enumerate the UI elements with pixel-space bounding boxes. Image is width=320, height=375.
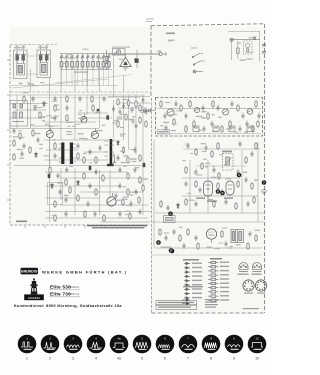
transformer IF block box 3 <box>229 126 235 132</box>
wire horizontal net h13 <box>45 171 128 173</box>
inductor IF can 1 windings <box>59 144 77 162</box>
resistor R90 <box>95 156 97 164</box>
oscillogram 7 <box>179 335 198 361</box>
switch S1 contact <box>192 53 203 58</box>
resistor R1 left of triangle <box>105 50 108 70</box>
capacitor C181 <box>225 241 228 247</box>
capacitor C103 electrolytic <box>143 163 146 167</box>
node terminal 1 <box>170 249 175 254</box>
wire vertical net v20 <box>16 95 18 128</box>
resistor legend symbol row M8 <box>208 291 219 293</box>
node label Ausgangstrafo <box>252 274 262 275</box>
diode legend symbol row L5 <box>184 279 190 282</box>
capacitor C14 right border <box>262 45 266 54</box>
wire vertical net v11 <box>60 95 62 140</box>
inductor L9 band coil <box>81 62 84 68</box>
capacitor C5 tuning trimmer <box>70 54 73 62</box>
resistor R210 mixer area <box>139 116 141 124</box>
inductor L8 band coil <box>76 62 79 68</box>
node socket labels <box>244 293 265 294</box>
inductor L6 band coil <box>65 62 68 68</box>
wire AF vertical x258 <box>257 142 259 222</box>
wire horizontal net h3 <box>10 117 45 119</box>
wire horizontal net h11 <box>45 159 108 161</box>
wire label above oscillator box <box>112 47 130 48</box>
capacitor C50 in filter box <box>13 104 23 108</box>
wire border tick marks bottom <box>25 225 145 228</box>
resistor R214 mixer area <box>145 120 147 128</box>
node legend text row L9 <box>192 297 202 298</box>
resistor R107 <box>102 174 104 182</box>
node GRUNDIG logo box <box>21 267 42 274</box>
capacitor C172 <box>173 229 176 235</box>
inductor L16 in filter box <box>12 112 24 122</box>
svg-text:3: 3 <box>72 357 74 361</box>
switch S2 contact <box>193 61 204 66</box>
resistor R170 <box>159 228 161 236</box>
resistor R114 <box>103 214 105 222</box>
wire horizontal net h5 <box>44 121 96 123</box>
capacitor C207 mixer area <box>132 118 135 124</box>
diode D42 <box>117 140 120 146</box>
resistor R212 mixer area <box>117 120 119 128</box>
capacitor C76 <box>57 173 60 179</box>
node legend text row M8 <box>220 291 229 292</box>
capacitor C24 IF network <box>185 113 188 120</box>
svg-text:10: 10 <box>255 337 259 341</box>
resistor R88 <box>83 156 85 164</box>
transformer T4 mains pinout view <box>239 263 248 272</box>
wire sheet-border-bottom-left <box>10 224 150 226</box>
capacitor C215 mixer area <box>142 97 145 103</box>
wire horizontal net h14 <box>60 177 143 179</box>
wire comb drop 9 <box>103 67 105 70</box>
resistor R13 IF network <box>180 104 182 112</box>
resistor R178 <box>255 234 257 242</box>
capacitor C43 IF network <box>203 126 206 133</box>
svg-text:(5537-H): (5537-H) <box>69 292 79 296</box>
svg-text:9: 9 <box>233 357 235 361</box>
capacitor C209 mixer area <box>112 106 115 112</box>
resistor R44 <box>32 129 34 137</box>
oscillogram 1 <box>18 335 37 361</box>
resistor R112 <box>138 196 140 204</box>
capacitor C6 tuning trimmer <box>76 54 79 62</box>
node label above tuner boxes <box>14 47 48 48</box>
capacitor C30 IF network <box>231 101 234 108</box>
svg-text:Elite 730: Elite 730 <box>50 292 71 297</box>
resistor R202 mixer area <box>127 99 129 107</box>
wire horizontal net h7 <box>82 117 112 119</box>
node junction circle power <box>230 38 233 41</box>
wire vertical net v22 <box>99 170 101 215</box>
resistor R158 <box>195 148 197 156</box>
transistor Q3 IF stage <box>223 109 229 115</box>
resistor R93 <box>122 146 124 154</box>
wire power right vertical <box>259 32 261 63</box>
svg-text:Elite 530: Elite 530 <box>50 285 71 290</box>
resistor R49 <box>13 153 15 161</box>
wire vertical net v5 <box>74 70 76 92</box>
capacitor C113 <box>94 211 97 217</box>
resistor R180 <box>197 242 199 250</box>
capacitor C106 <box>95 169 98 175</box>
capacitor C8 tuning trimmer <box>86 54 89 62</box>
wire sheet-border-left <box>9 45 11 225</box>
transformer T3 output transformer <box>231 230 244 243</box>
wire horizontal net h1 <box>10 103 48 105</box>
capacitor C145 <box>195 201 198 207</box>
resistor R82 <box>83 172 85 180</box>
node legend left column header <box>183 259 199 261</box>
resistor R23 IF network <box>255 100 257 108</box>
capacitor C211 mixer area <box>145 109 148 115</box>
wire comb drop 1 <box>61 67 63 70</box>
node legend text row L2 <box>192 267 202 268</box>
switch legend arrows <box>182 299 189 305</box>
capacitor C21 IF network <box>164 113 167 120</box>
resistor R25 IF network <box>173 118 175 126</box>
svg-text:Kundendienst: 8500 Nürnberg, G: Kundendienst: 8500 Nürnberg, Goldbachstr… <box>14 304 122 308</box>
resistor R77 <box>65 178 67 186</box>
capacitor C159 <box>187 143 190 149</box>
transformer IF can core bar 3 <box>110 139 113 165</box>
resistor R173 <box>179 234 181 242</box>
node legend text row L5 <box>192 280 202 281</box>
capacitor C13 right of triangle <box>136 50 139 68</box>
resistor R204 mixer area <box>135 100 137 108</box>
svg-text:10: 10 <box>255 357 259 361</box>
oscillogram 4 <box>87 335 106 361</box>
resistor R182 <box>247 242 249 250</box>
wire horizontal net h2 <box>14 109 46 111</box>
node labels under output tubes <box>196 198 233 202</box>
wire antenna feed line to UKW box <box>108 53 160 55</box>
resistor R64 <box>92 104 94 112</box>
node text VHF label <box>166 33 175 35</box>
wire AF bus y213 <box>155 212 264 214</box>
resistor R95 <box>127 156 129 164</box>
inductor L1 ferrite antenna box <box>14 50 28 79</box>
capacitor C179 <box>183 243 186 249</box>
capacitor C2 trimmer in L3 box <box>39 55 50 61</box>
capacitor C203 mixer area <box>131 107 134 113</box>
oscillogram 4a <box>110 335 129 361</box>
resistor R70 <box>54 142 56 150</box>
capacitor C55 <box>54 96 57 102</box>
inductor L5 band coil <box>60 62 63 68</box>
svg-text:1: 1 <box>26 357 28 361</box>
capacitor C41 IF network <box>165 125 168 132</box>
capacitor C149 <box>247 201 250 207</box>
wire comb drop 10 <box>108 67 110 70</box>
node legend small text rows bottom <box>205 299 219 308</box>
transistor Q2 IF stage <box>194 107 199 112</box>
inductor L30 bracket coil <box>114 154 115 165</box>
wire vertical net v9 <box>86 95 88 115</box>
wire sheet-border-right <box>264 24 266 313</box>
diode legend symbol row L7 <box>184 288 190 291</box>
capacitor C109 <box>115 193 118 199</box>
wire bus y95 <box>10 94 145 96</box>
node label smudge texture group <box>13 37 260 249</box>
resistor R141 <box>237 180 239 188</box>
transformer T2 power section line <box>230 39 261 41</box>
wire dashed box UKW left border <box>150 26 152 97</box>
transistor Q10 output stage right <box>226 181 234 195</box>
resistor R132 <box>201 162 203 170</box>
resistor R58 <box>91 95 93 103</box>
potentiometer P1 volume box <box>164 216 176 223</box>
wire comb drop 3 <box>71 67 73 70</box>
wire IF strip signal line <box>158 108 261 110</box>
resistor R152 <box>160 200 162 208</box>
resistor R119 <box>129 212 131 220</box>
wire dashed box UKW top border <box>151 24 263 26</box>
resistor R108 <box>95 188 97 196</box>
capacitor C37 IF network <box>211 121 214 128</box>
diode legend symbol row L8 <box>184 292 190 295</box>
node legend text row M10 <box>220 299 229 300</box>
wire vertical net v3 <box>49 138 51 211</box>
capacitor C201 mixer area <box>122 103 125 109</box>
node legend text row M1 <box>220 262 229 263</box>
capacitor C89 <box>89 149 92 155</box>
transistor Q6 FM mixer <box>81 114 87 123</box>
wire horizontal net h8 <box>44 139 116 141</box>
inductor L7 band coil <box>71 62 74 68</box>
oscillogram 6 <box>156 335 175 361</box>
capacitor C100 electrolytic <box>106 115 109 119</box>
capacitor C177 <box>249 231 252 237</box>
resistor R75 <box>49 166 51 174</box>
wire comb label <box>74 72 88 73</box>
capacitor C102 electrolytic <box>97 109 100 113</box>
capacitor C155 <box>251 151 254 157</box>
node terminal circle A <box>262 189 266 193</box>
wire horizontal net h17 <box>45 197 100 199</box>
node legend text row L7 <box>192 288 202 289</box>
resistor R208 mixer area <box>139 104 141 112</box>
transformer IF block box 1 <box>193 126 199 132</box>
capacitor C43 <box>23 143 26 149</box>
capacitor C131 <box>195 169 198 175</box>
diode D18 <box>35 152 38 158</box>
resistor R137 <box>195 180 197 188</box>
capacitor C147 <box>225 199 228 205</box>
diode legend symbol row L2 <box>184 267 190 270</box>
capacitor C85 <box>65 197 68 203</box>
wire antenna ticks box1 <box>15 45 26 50</box>
wire AF horizontal y196 <box>182 195 258 197</box>
oscillogram 10 <box>248 335 267 361</box>
wire horizontal net h22 <box>108 96 150 98</box>
svg-text:4a: 4a <box>117 357 121 361</box>
wire vertical net v18 <box>142 95 144 215</box>
capacitor C4 tuning trimmer <box>65 54 68 62</box>
resistor legend symbol row M7 <box>208 287 219 289</box>
resistor R86 <box>54 200 56 208</box>
diode legend symbol row L6 <box>184 284 190 287</box>
node legend left column header2 <box>183 286 203 287</box>
svg-text:4: 4 <box>95 357 97 361</box>
transistor Q11 power mark <box>253 37 256 40</box>
wire sheet-border-top-left <box>10 44 57 46</box>
wire comb drop 4 <box>76 67 78 70</box>
resistor R30 IF network <box>257 120 259 128</box>
resistor R63 <box>66 114 68 122</box>
node terminal 8 <box>169 248 174 253</box>
wire antenna ticks box2 <box>39 45 49 50</box>
diode legend symbol row L9 <box>184 297 190 300</box>
transistor Q4 IF stage <box>247 109 253 115</box>
resistor R117 <box>54 214 56 222</box>
resistor R36 IF network <box>252 125 254 133</box>
capacitor C104 <box>135 189 138 195</box>
oscillogram 9 <box>225 335 244 361</box>
resistor R206 mixer area <box>125 113 127 121</box>
wire power top line <box>228 31 260 33</box>
inductor L2 coil inside box1 <box>17 51 24 73</box>
resistor R28 IF network <box>229 120 231 128</box>
node legend text row M4 <box>220 274 229 275</box>
transistor Q9 output stage left <box>204 181 213 200</box>
transistor Q5 AM mixer AC151 <box>46 128 53 138</box>
wire bus y85 partial <box>10 85 118 87</box>
resistor R10 IF network <box>160 100 162 108</box>
node legend text row L4 <box>192 275 202 276</box>
wire horizontal net h4 <box>30 125 60 127</box>
wire comb drop bus group <box>62 70 109 87</box>
wire vertical net v12 <box>113 54 115 97</box>
resistor R134 <box>218 172 220 180</box>
capacitor C100 <box>134 167 137 173</box>
node legend text row M7 <box>220 287 229 288</box>
capacitor C59 <box>103 96 106 102</box>
resistor R176 <box>221 230 223 238</box>
capacitor C51 <box>34 105 37 111</box>
node Elite row underlines <box>49 290 80 297</box>
diode D28 <box>51 183 54 189</box>
node legend text row M5 <box>220 278 229 279</box>
inductor L3 AM oscillator coil box <box>37 50 51 78</box>
wire IF box bottom bus <box>158 133 261 135</box>
capacitor C94 <box>117 155 120 161</box>
node dipole connector <box>140 109 155 112</box>
node terminal 4 <box>237 173 242 178</box>
diode legend symbol row L3 <box>184 271 190 274</box>
svg-text:7: 7 <box>187 357 189 361</box>
node legend text row L3 <box>192 271 202 272</box>
node legend middle column header <box>210 258 222 260</box>
capacitor C1 trimmer in L1 box <box>15 55 26 61</box>
node antenna terminal <box>159 52 166 55</box>
wire horizontal net h15 <box>45 185 120 187</box>
resistor R174 <box>187 228 189 236</box>
resistor R115 <box>84 210 86 218</box>
resistor R100 thermistor dashed box <box>223 154 234 171</box>
wire power section vertical left <box>231 40 233 60</box>
diode D22 <box>43 101 46 107</box>
wire vertical net v14 <box>123 75 125 92</box>
resistor R156 <box>211 150 213 158</box>
transformer IF block box 4 <box>247 126 253 132</box>
capacitor C12 tuning trimmer <box>107 54 110 62</box>
capacitor C133 <box>213 167 216 173</box>
svg-text:6: 6 <box>164 357 166 361</box>
node terminal 6 <box>220 191 225 196</box>
resistor R110 <box>122 198 124 206</box>
capacitor C104 electrolytic <box>48 174 51 178</box>
capacitor C47 <box>21 151 24 157</box>
resistor legend symbol row M1 <box>208 261 219 263</box>
capacitor C72 <box>77 143 80 149</box>
wire border tick marks left <box>7 60 10 200</box>
diode legend symbol row L4 <box>184 275 190 278</box>
resistor R2 power <box>237 41 239 59</box>
capacitor C34 IF network <box>258 113 261 120</box>
resistor R32 IF network <box>185 125 187 133</box>
oscillogram 3 <box>64 335 83 361</box>
capacitor C45 <box>37 137 40 143</box>
node smudges mixer area <box>112 99 145 128</box>
capacitor C98 <box>119 167 122 173</box>
wire comb drop 8 <box>97 67 99 70</box>
oscillogram 5 <box>133 335 152 361</box>
svg-text:WERKE GMBH FÜRTH (BAY.): WERKE GMBH FÜRTH (BAY.) <box>42 269 127 274</box>
tube socket view 2 <box>255 280 266 291</box>
capacitor C40 <box>13 128 16 134</box>
wire vertical net v15 <box>123 95 125 140</box>
node label TA8-58 left <box>16 221 27 223</box>
resistor R99 <box>127 172 129 180</box>
resistor R60 <box>54 104 56 112</box>
resistor R160 <box>217 142 219 150</box>
inductor L12 band coil <box>97 62 100 68</box>
capacitor C61 <box>54 115 57 121</box>
wire dial cord diagonal <box>12 79 108 88</box>
resistor R34 IF network <box>221 125 223 133</box>
node legend text row L1 <box>192 263 202 264</box>
wire AF horizontal y166 <box>196 165 246 167</box>
resistor R162 <box>255 142 257 150</box>
svg-text:4a: 4a <box>117 337 121 341</box>
capacitor C3 tuning trimmer <box>60 54 63 62</box>
resistor legend symbol row M10 <box>208 299 219 301</box>
resistor legend symbol row M4 <box>208 274 219 276</box>
resistor R73 <box>77 152 79 160</box>
wire horizontal net h6 <box>78 112 108 114</box>
svg-text:(1936-H): (1936-H) <box>69 285 79 289</box>
wire vertical net v16 <box>128 95 130 150</box>
resistor legend symbol row M6 <box>208 282 219 284</box>
capacitor C140 <box>221 189 224 195</box>
switch S3 contact with lamp <box>193 70 203 73</box>
wire comb drop 7 <box>92 67 94 70</box>
capacitor C53 <box>32 96 35 102</box>
wire triangle bottom lead <box>125 67 127 72</box>
wire horizontal net h19 <box>45 211 151 213</box>
wire vertical net v8 <box>99 95 101 128</box>
svg-text:2: 2 <box>49 357 51 361</box>
capacitor C161 <box>239 141 242 147</box>
capacitor C175 <box>195 235 198 241</box>
node label TA8-58 box <box>158 130 170 135</box>
wire vertical net v2 <box>49 78 51 131</box>
node legend text row M3 <box>220 270 229 271</box>
resistor legend symbol row M9 <box>208 295 219 297</box>
wire comb top bus <box>60 53 114 55</box>
